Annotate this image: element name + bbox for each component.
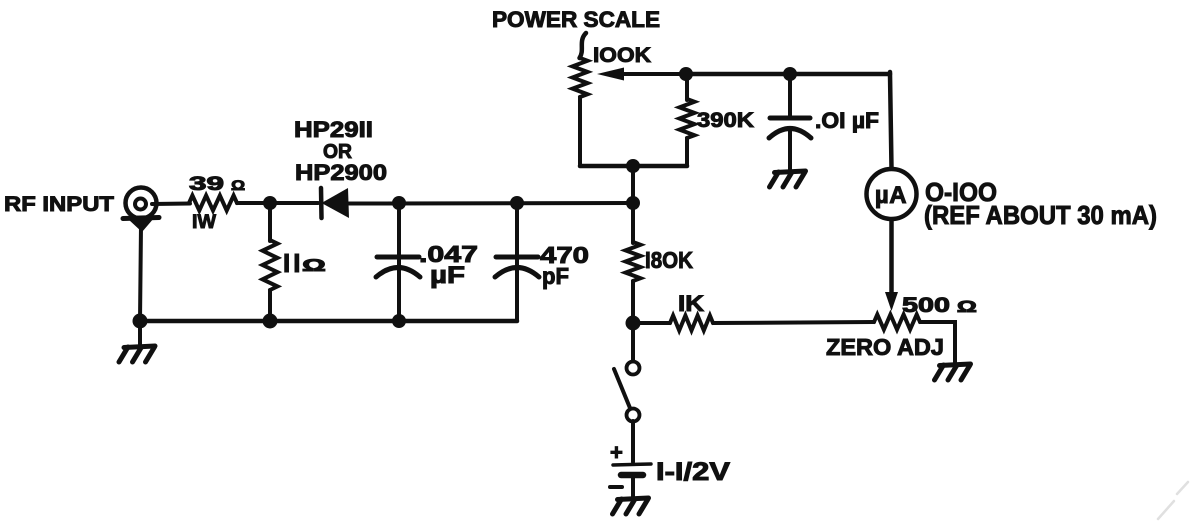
ground G3 xyxy=(935,364,971,380)
capacitor C3 .01 uF xyxy=(770,116,810,121)
ground G4 xyxy=(613,498,649,514)
potentiometer R6 500 ohm body xyxy=(874,315,920,330)
svg-text:390K: 390K xyxy=(697,108,755,132)
wire wiper to meter corner xyxy=(686,72,890,77)
svg-text:IOOK: IOOK xyxy=(593,44,651,67)
node junction wiper/390K xyxy=(679,67,693,81)
svg-text:I8OK: I8OK xyxy=(645,247,693,273)
meter M1 microammeter xyxy=(867,169,917,219)
wire R6 right to ground xyxy=(920,322,955,363)
connector J1 RF input coax jack xyxy=(123,188,159,233)
wire node to R7 xyxy=(633,321,670,325)
capacitor C2 470 pF xyxy=(496,255,538,260)
svg-text:+: + xyxy=(610,440,623,465)
svg-text:II: II xyxy=(283,248,303,278)
svg-text:HP29II: HP29II xyxy=(294,117,373,142)
wire pot bus to summing node xyxy=(631,166,635,203)
diode CR1 HP2911/HP2900 xyxy=(321,188,349,218)
svg-text:µF: µF xyxy=(430,262,465,289)
svg-text:ZERO ADJ: ZERO ADJ xyxy=(826,334,944,360)
wire C1 branch xyxy=(397,203,401,321)
node junction bus left xyxy=(133,314,148,329)
svg-text:(REF ABOUT 30 mA): (REF ABOUT 30 mA) xyxy=(924,200,1157,230)
svg-text:RF INPUT: RF INPUT xyxy=(4,192,114,216)
node junction at C1 bottom xyxy=(392,314,406,328)
wire C3 to ground xyxy=(788,130,792,170)
resistor R5 180K xyxy=(626,203,641,323)
battery BT1 1-1/2V xyxy=(610,440,651,487)
wire ground bus xyxy=(140,319,517,324)
svg-text:500: 500 xyxy=(902,294,950,317)
wire top rail to meter xyxy=(890,72,892,168)
capacitor C1 .047 uF xyxy=(377,255,419,260)
wire C2 branch xyxy=(515,203,519,321)
scan artifact bottom right xyxy=(1158,482,1188,519)
wiper arrow of R3 xyxy=(597,68,686,81)
ground G2 xyxy=(770,171,806,187)
node summing junction xyxy=(626,196,640,210)
wire node to R2 xyxy=(268,203,272,241)
node junction at C2 top xyxy=(510,196,524,210)
wire C3 branch xyxy=(788,74,792,118)
switch S1 xyxy=(614,323,640,422)
wire J1 to R1 xyxy=(152,202,190,207)
resistor R7 1K xyxy=(670,316,713,331)
svg-text:39: 39 xyxy=(189,174,224,195)
svg-text:Ω: Ω xyxy=(957,299,977,316)
svg-text:pF: pF xyxy=(542,263,569,289)
resistor R2 11 ohm xyxy=(263,240,278,290)
svg-text:IW: IW xyxy=(192,212,216,233)
wiper arrow of R6 500 ohm xyxy=(885,292,898,311)
wire diode to summing node xyxy=(349,201,633,206)
svg-text:I-I/2V: I-I/2V xyxy=(656,458,730,486)
potentiometer R3 100K body xyxy=(573,33,588,166)
wire J1 shell to bus xyxy=(140,226,141,321)
svg-text:IK: IK xyxy=(678,291,704,316)
svg-text:POWER SCALE: POWER SCALE xyxy=(492,7,660,32)
svg-text:HP2900: HP2900 xyxy=(295,160,387,185)
resistor R1 39 ohm 1W xyxy=(189,196,237,211)
node junction at C1 top xyxy=(392,196,406,210)
wire R2 to ground bus xyxy=(268,290,272,321)
wire bus to ground stub xyxy=(138,321,142,345)
wire meter to wiper arrow of R6 xyxy=(889,220,894,296)
node junction 180K/1K/switch xyxy=(626,316,641,331)
node junction at C3 top xyxy=(783,67,797,81)
node junction pot bus xyxy=(626,159,640,173)
resistor R4 390K xyxy=(680,74,695,166)
wire R7 to R6 xyxy=(713,322,874,323)
svg-text:.OI µF: .OI µF xyxy=(815,108,879,133)
node junction at 11-ohm top xyxy=(263,196,277,210)
ground G1 xyxy=(119,346,155,362)
node junction bus mid xyxy=(263,314,278,329)
wire pot bottom bus xyxy=(580,164,687,169)
svg-text:Ω: Ω xyxy=(302,256,326,275)
svg-text:µA: µA xyxy=(875,182,907,209)
wire S1 to battery xyxy=(631,421,635,462)
wire battery to ground xyxy=(631,477,635,497)
wire R1 to diode CR1 xyxy=(237,201,318,205)
svg-text:Ω: Ω xyxy=(231,177,245,193)
